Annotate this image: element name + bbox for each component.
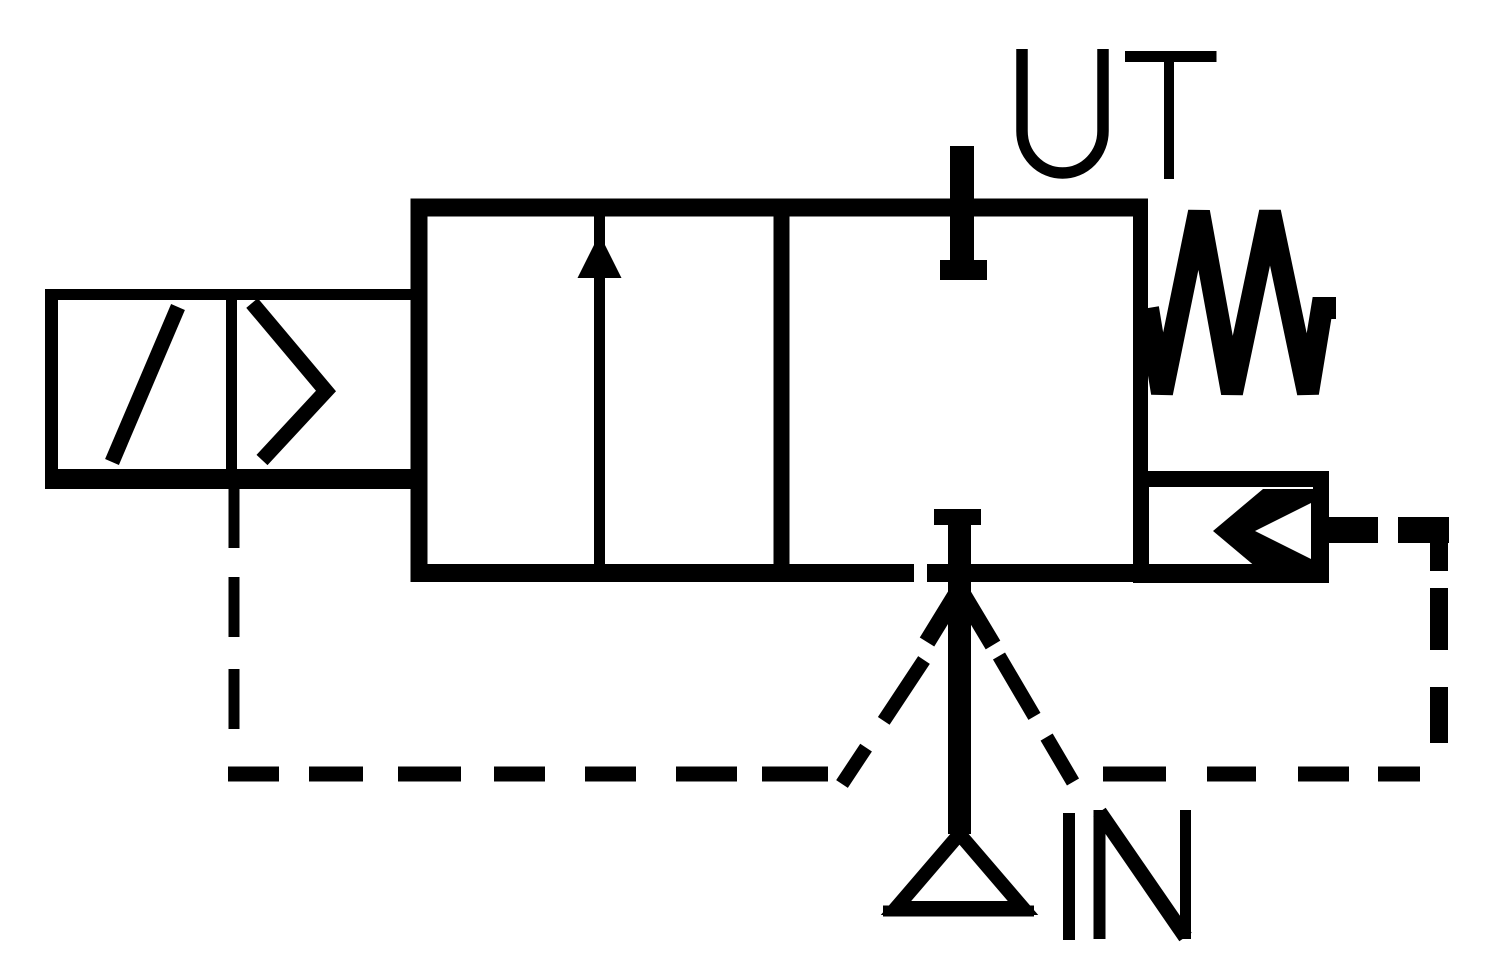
solenoid box divider: [226, 294, 237, 474]
pilot stub line: [1329, 517, 1378, 543]
pilot line horizontal dashes: [228, 767, 1420, 782]
return spring: [1148, 212, 1336, 393]
port IN blocked crossbar: [934, 509, 981, 525]
solenoid box top edge: [45, 289, 411, 300]
port UT blocked crossbar: [940, 260, 987, 280]
solenoid box bottom edge: [45, 469, 411, 489]
pilot arrow white notch: [1255, 503, 1311, 559]
solenoid box left edge: [45, 289, 58, 489]
pilot line right vertical dashes: [1430, 588, 1448, 650]
label IN: [1069, 810, 1186, 940]
valve body right edge: [1133, 199, 1148, 583]
valve body left edge: [411, 199, 428, 583]
port IN source triangle: [896, 834, 1023, 908]
port IN stem: [948, 509, 971, 834]
solenoid pilot line solid segment: [229, 489, 240, 548]
flow path arrow line (left square): [594, 210, 605, 568]
pilot line right corner dash: [1398, 517, 1449, 543]
flow path arrowhead: [578, 234, 622, 278]
solenoid slash: [112, 307, 178, 462]
label UT: [1022, 49, 1217, 179]
pilot arrow box outline: [1141, 479, 1321, 575]
valve body bottom edge left segment: [411, 564, 915, 582]
port IN arrowhead: [927, 589, 993, 645]
port UT stem: [950, 146, 974, 280]
pilot line right diagonal dashes: [999, 656, 1073, 782]
pilot line left diagonal dashes: [842, 660, 924, 784]
port IN base line: [883, 906, 1034, 917]
pilot arrow black wedge: [1213, 489, 1329, 573]
valve body top edge: [411, 199, 1149, 217]
solenoid pilot chevron: [252, 303, 326, 460]
valve body bottom edge right segment: [927, 564, 1329, 582]
valve body centre divider: [774, 199, 790, 583]
solenoid pilot line vertical dashes: [229, 577, 240, 637]
